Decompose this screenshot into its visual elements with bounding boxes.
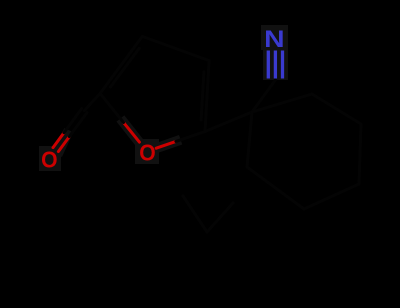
- bond CHO-C5: [84, 93, 100, 110]
- stub bond a: [183, 196, 207, 232]
- furan O-C5 bond: [124, 122, 140, 142]
- glyph halo boxes: [39, 25, 288, 171]
- nitrile C#N triple bond: [267, 51, 270, 79]
- cyclohexane bond H5-H6: [247, 167, 304, 209]
- compression halo artifacts: [60, 122, 176, 150]
- furan C3-C4 bond: [142, 36, 209, 60]
- bond C2-Cq: [205, 112, 252, 132]
- bond Cq-nitrile C: [252, 80, 275, 112]
- furan ring oxygen O: [139, 139, 155, 165]
- svg-text:O: O: [139, 139, 155, 165]
- aldehyde C=O double bond: [58, 137, 69, 152]
- furan C2=C3 double bond: [205, 61, 209, 132]
- aldehyde oxygen O: [41, 146, 57, 172]
- cyclohexane bond H2-H3: [312, 94, 361, 124]
- cyclohexane bond H4-H5: [304, 184, 359, 209]
- svg-text:N: N: [264, 25, 284, 52]
- cyclohexane bond H6-Cq: [247, 112, 252, 167]
- nitrile nitrogen N: [264, 25, 284, 52]
- stub bond b: [207, 203, 233, 232]
- svg-text:O: O: [41, 146, 57, 172]
- cyclohexane bond H3-H4: [359, 124, 361, 184]
- cyclohexane bond Cq-H2: [252, 94, 312, 112]
- furan O-C2 bond: [156, 141, 176, 148]
- furan C4=C5 double bond: [100, 36, 142, 93]
